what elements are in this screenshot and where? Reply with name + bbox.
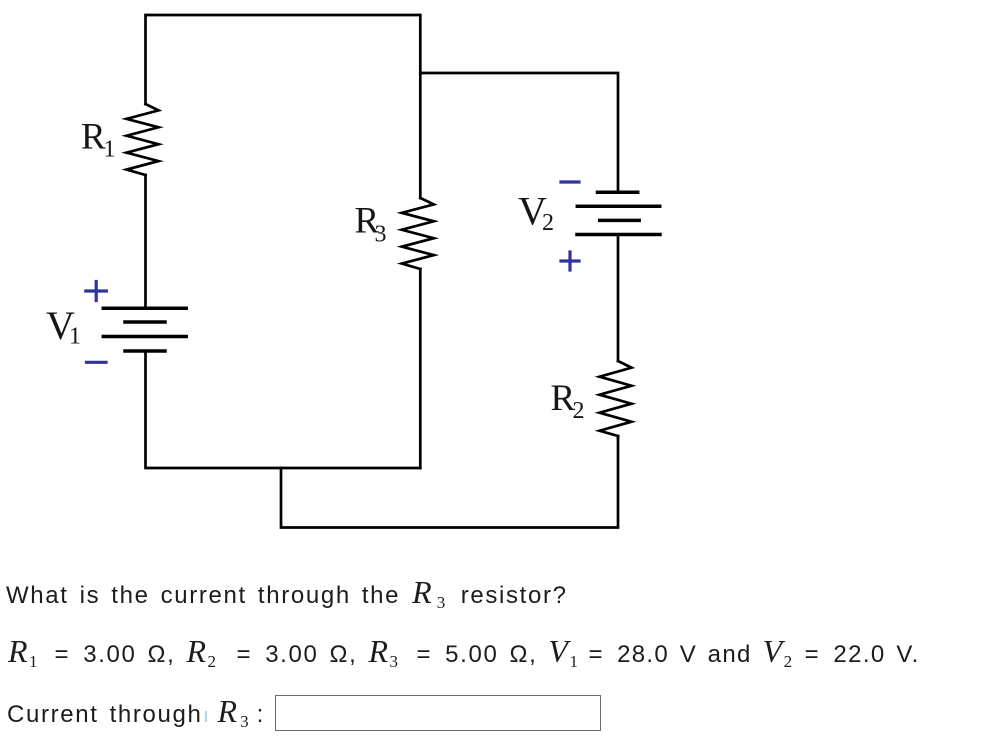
svg-text:2: 2 <box>573 398 585 424</box>
svg-text:1: 1 <box>104 137 116 163</box>
svg-text:1: 1 <box>69 324 81 350</box>
svg-text:2: 2 <box>542 210 554 236</box>
svg-text:R: R <box>81 117 106 158</box>
svg-text:3: 3 <box>375 222 387 248</box>
